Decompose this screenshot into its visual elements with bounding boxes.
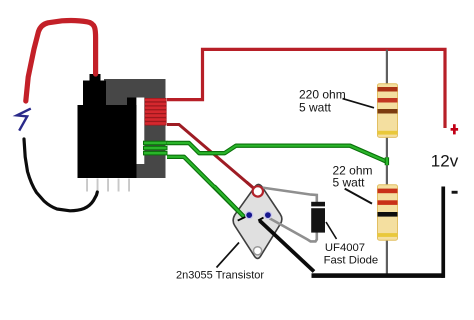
svg-text:UF4007: UF4007 <box>325 242 365 254</box>
svg-text:220 ohm: 220 ohm <box>299 87 346 101</box>
svg-text:5 watt: 5 watt <box>299 101 332 115</box>
svg-text:12v: 12v <box>431 151 459 170</box>
svg-text:5 watt: 5 watt <box>333 176 366 190</box>
svg-text:2n3055 Transistor: 2n3055 Transistor <box>176 270 264 282</box>
svg-text:Fast Diode: Fast Diode <box>324 254 379 266</box>
